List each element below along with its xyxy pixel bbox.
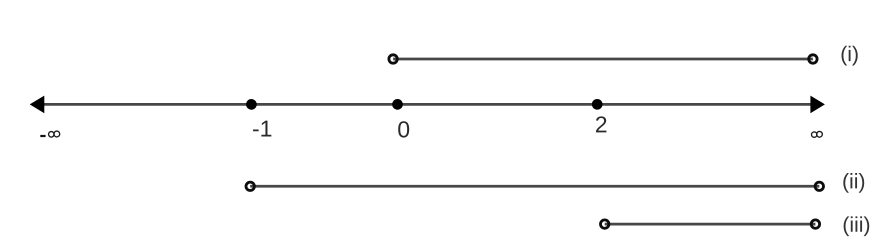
node: open circle at 2 for interval (iii) xyxy=(601,220,609,228)
arrowhead left (-infinity direction) xyxy=(30,96,45,114)
wire: interval (i) segment from 0 to right end xyxy=(393,58,813,61)
node: open circle at right end of interval (i) xyxy=(809,55,817,63)
node: open circle at right end of interval (iii) xyxy=(811,220,819,228)
label 2 xyxy=(596,116,606,132)
node: open circle at -1 for interval (ii) xyxy=(246,182,254,190)
wire: interval (iii) segment from 2 to right end xyxy=(605,223,816,226)
label -infinity xyxy=(40,135,45,137)
label 0 xyxy=(398,121,409,137)
label +infinity xyxy=(812,131,823,137)
node: open circle at x=0 for interval (i) xyxy=(389,55,397,63)
node: filled dot at 2 xyxy=(592,99,603,110)
wire: interval (ii) segment from -1 to right end xyxy=(250,185,819,188)
node: filled dot at 0 xyxy=(392,99,403,110)
node: filled dot at -1 xyxy=(246,99,257,110)
label (i) xyxy=(842,46,858,66)
label (iii) xyxy=(844,216,870,236)
wire: main number line xyxy=(42,103,812,106)
arrowhead right (+infinity direction) xyxy=(810,96,825,114)
label (ii) xyxy=(843,173,864,193)
label -1 xyxy=(253,121,271,137)
node: open circle at right end of interval (ii) xyxy=(815,182,823,190)
